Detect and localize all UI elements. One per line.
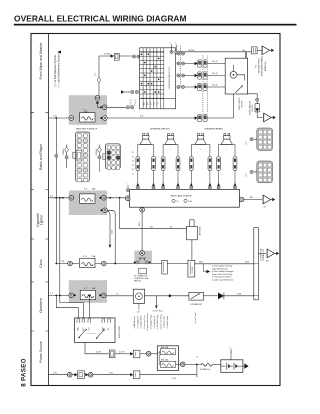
svg-text:to Defogger Relay: to Defogger Relay: [150, 315, 153, 330]
wire cig feed: [49, 197, 70, 199]
junction bus J8: [254, 228, 259, 300]
wire od switch to diode: [204, 295, 218, 297]
connector right of fuse box: [179, 363, 181, 365]
svg-text:to Fuel Pump: to Fuel Pump: [194, 313, 197, 324]
relay block F2 (gray): [69, 95, 107, 125]
fuse F8 clock: [80, 258, 95, 267]
svg-text:to Door Lock Relay: to Door Lock Relay: [159, 314, 162, 329]
radio connector block B: [103, 144, 121, 170]
svg-text:to ECT ECU: to ECT ECU: [153, 310, 164, 313]
svg-text:1 W: 1 W: [172, 378, 176, 380]
svg-text:WIPER AND WASHER SW: WIPER AND WASHER SW: [168, 67, 171, 89]
junction connectors above table: [170, 50, 173, 53]
wire block A lead: [66, 145, 68, 169]
relay block F7 (gray): [69, 280, 107, 303]
harness connector on washer feed: [111, 54, 114, 57]
connector to upper block: [254, 138, 257, 140]
svg-text:6: 6: [170, 43, 171, 45]
connector right of F8: [102, 261, 107, 266]
svg-text:18 L-B: 18 L-B: [212, 61, 218, 63]
diamond connector: [65, 147, 69, 152]
svg-text:W-L: W-L: [95, 72, 97, 75]
dashed harness line right of table: [180, 46, 182, 88]
speaker at 200.6: [198, 133, 200, 135]
connector radio top left: [126, 189, 129, 192]
connector 4-10: [109, 350, 115, 358]
svg-text:15: 15: [132, 165, 134, 167]
svg-text:12: 12: [132, 152, 134, 154]
fuse F6 CIG: [80, 194, 95, 203]
wiper relay stub to top wire: [245, 52, 246, 58]
svg-text:to Theft Deterrent ECU: to Theft Deterrent ECU: [212, 276, 232, 279]
speaker at 226.8: [224, 133, 226, 135]
battery terminal stub: [230, 349, 232, 360]
svg-text:( ) : w/ Full-Harness System: ( ) : w/ Full-Harness System: [53, 55, 57, 87]
sidebar tick: [31, 330, 49, 332]
svg-text:BR: BR: [250, 197, 253, 199]
svg-text:NATION: NATION: [134, 279, 141, 282]
svg-text:F 9: F 9: [176, 201, 179, 203]
svg-text:Radio and Player: Radio and Player: [39, 143, 43, 170]
wire F7 to clock unit: [106, 295, 134, 297]
wire washer feed: [99, 55, 132, 57]
svg-text:Power Point (Tail) Relay: Power Point (Tail) Relay: [212, 273, 232, 276]
connector pair row C: [177, 74, 180, 77]
svg-text:CONNECTOR: CONNECTOR: [263, 248, 265, 261]
battery: [221, 360, 243, 373]
sidebar tick: [31, 189, 49, 191]
wire to battery: [185, 363, 201, 365]
svg-text:IH 2: IH 2: [246, 173, 248, 176]
speaker at 170.6: [168, 133, 170, 135]
svg-text:15A: 15A: [92, 188, 96, 191]
connector left of F8: [68, 261, 73, 266]
left verticals to ignition switch: [56, 296, 78, 320]
svg-text:to w/o Daytime Running: to w/o Daytime Running: [212, 265, 232, 268]
svg-text:G-W: G-W: [237, 294, 241, 296]
svg-text:O/D MAIN SW: O/D MAIN SW: [190, 303, 202, 306]
harness connector AM: [130, 352, 133, 355]
svg-text:0.5 W: 0.5 W: [119, 352, 124, 354]
svg-text:to Headlight RH: to Headlight RH: [136, 315, 139, 328]
svg-text:IH 1: IH 1: [246, 141, 248, 144]
connector on radio left: [126, 196, 131, 201]
wire to switch row2: [124, 91, 130, 93]
antenna feed wire: [120, 228, 187, 230]
left vertical wire 2: [59, 198, 61, 296]
fusible link box: [78, 371, 85, 379]
fuse AM1: [160, 361, 175, 367]
branch arrow to other systems: [207, 270, 211, 273]
connector pair on lower wire: [195, 116, 198, 119]
wire cig branch to clock line: [107, 210, 115, 263]
svg-text:2: 2: [175, 43, 176, 45]
svg-text:0.5 B: 0.5 B: [96, 351, 101, 353]
svg-text:FL MAIN 2.0L: FL MAIN 2.0L: [200, 368, 210, 371]
svg-text:to Headlight LH: to Headlight LH: [153, 315, 156, 328]
svg-text:to Junction Conn: to Junction Conn: [143, 315, 146, 329]
dashed wires below pairs: [203, 91, 207, 114]
connector top of relay block: [95, 96, 100, 101]
svg-text:18 L-B: 18 L-B: [212, 85, 218, 87]
wire ACC bus: [107, 117, 234, 119]
connector lower right of F6: [103, 208, 108, 213]
svg-text:W-B: W-B: [199, 262, 204, 264]
clock unit: [133, 289, 144, 303]
svg-text:INSTRUMENT PANEL: INSTRUMENT PANEL: [261, 55, 264, 76]
junction block 1G-3B: [188, 260, 195, 277]
svg-text:Front Wiper and Washer: Front Wiper and Washer: [39, 42, 43, 80]
svg-text:W: W: [197, 356, 199, 358]
sidebar tick: [31, 238, 49, 240]
left vertical wire W bus: [55, 118, 57, 264]
svg-text:1G-3B: 1G-3B: [192, 267, 194, 273]
svg-text:18 W-L: 18 W-L: [104, 54, 112, 56]
direction arrow on od wire: [169, 294, 172, 297]
right connector block lower: [257, 161, 273, 183]
svg-text:14: 14: [132, 161, 134, 163]
svg-text:22 W: 22 W: [112, 230, 114, 235]
connector left of F7: [69, 293, 74, 298]
svg-text:1 W: 1 W: [109, 372, 113, 374]
svg-text:to Light Control Rheostat: to Light Control Rheostat: [212, 279, 233, 282]
svg-text:OVERALL ELECTRICAL WIRING DIAG: OVERALL ELECTRICAL WIRING DIAGRAM: [14, 14, 187, 24]
connector left of F6: [69, 196, 74, 201]
engine room fuse box: [157, 346, 178, 371]
fuse ALT: [160, 349, 175, 355]
svg-text:to Rear Window Defogger: to Rear Window Defogger: [212, 270, 234, 273]
connector left of fuse: [69, 116, 74, 121]
main power wire 1W: [49, 374, 197, 376]
svg-text:Power Source: Power Source: [39, 341, 43, 362]
diagram frame: [31, 34, 280, 386]
svg-text:18 L-B: 18 L-B: [212, 73, 218, 75]
svg-text:MOTOR: MOTOR: [241, 100, 243, 107]
connector right of relay block upper: [102, 105, 107, 110]
stub down with arrow: [155, 296, 157, 306]
connector pair into wiper switch row2: [131, 90, 134, 93]
cig lighter bottom connectors: [136, 261, 139, 264]
svg-text:13: 13: [132, 156, 134, 158]
connector: [65, 156, 68, 159]
svg-text:ST1: ST1: [88, 327, 90, 330]
svg-text:1: 1: [127, 183, 128, 185]
clock feed wire: [56, 263, 188, 265]
relay block F6 (gray): [69, 191, 107, 216]
connector pair row B: [177, 62, 180, 65]
svg-text:7.5A: 7.5A: [91, 255, 96, 258]
svg-text:17: 17: [132, 174, 134, 176]
fuse F2: [80, 113, 95, 122]
ground point front right: [262, 46, 274, 55]
svg-text:L: L: [145, 149, 146, 151]
connector right of F7: [101, 293, 106, 298]
svg-text:Lighter: Lighter: [40, 214, 44, 225]
ground point radio: [263, 195, 275, 204]
fusible link main: [201, 363, 212, 366]
connector right of F6: [102, 196, 107, 201]
connector pair radio feed: [126, 106, 129, 109]
right connector block upper: [257, 128, 273, 151]
svg-text:SPEAKER (REAR): SPEAKER (REAR): [204, 128, 223, 131]
wire top feed to ground: [178, 51, 251, 53]
svg-text:L: L: [170, 149, 171, 151]
speaker wires: [219, 144, 235, 185]
svg-text:to Starter Relay: to Starter Relay: [166, 316, 169, 329]
connector to lower block: [254, 171, 257, 173]
svg-text:1B W-L: 1B W-L: [188, 50, 196, 52]
wire overdrive feed: [49, 295, 70, 297]
svg-text:SPEAKER (FRONT): SPEAKER (FRONT): [150, 128, 170, 131]
connector right of fuse: [103, 116, 108, 121]
wire radio to ground: [244, 199, 262, 201]
connector under radio: [140, 207, 145, 212]
connector pair row D: [177, 85, 180, 88]
fuse F7: [80, 290, 95, 299]
svg-text:W-B: W-B: [245, 262, 250, 264]
wire block B lead: [98, 145, 100, 173]
speaker wires: [191, 144, 210, 185]
speaker wires: [138, 144, 154, 185]
radio and player unit: [130, 189, 240, 207]
connector pair into wiper switch row1: [132, 55, 135, 58]
svg-text:15A: 15A: [84, 111, 88, 114]
svg-text:Overdrive: Overdrive: [39, 298, 43, 313]
od main switch: [189, 292, 204, 300]
ground battery: [243, 365, 245, 367]
svg-text:8 PASEO: 8 PASEO: [21, 358, 28, 386]
wire vertical to fuse box: [98, 56, 100, 95]
sidebar divider: [48, 34, 50, 386]
svg-text:7 RADIO: 7 RADIO: [62, 148, 65, 155]
cigarette lighter (gray): [134, 251, 152, 263]
sidebar tick: [31, 281, 49, 283]
front wiper motor box: [225, 58, 247, 94]
wire antenna down: [191, 240, 193, 260]
ignition switch box: [75, 318, 116, 343]
svg-text:to Charge Light: to Charge Light: [163, 315, 166, 328]
wire diode to bus: [224, 295, 254, 297]
wire main feed to F2: [49, 117, 70, 119]
svg-text:INT: INT: [150, 102, 152, 105]
svg-text:MOTOR: MOTOR: [252, 104, 254, 111]
wire to AM box: [115, 353, 130, 355]
junction node: [55, 117, 57, 119]
svg-text:to ABS Actuator: to ABS Actuator: [133, 315, 136, 328]
harness connector main: [133, 371, 140, 379]
od indicator diode: [218, 293, 224, 300]
motor antenna: [190, 220, 195, 227]
svg-text:16: 16: [132, 169, 134, 171]
speaker wires: [163, 144, 178, 185]
svg-text:1 W: 1 W: [53, 372, 57, 374]
wiper motor symbol: [230, 71, 237, 78]
wire to fusebox: [140, 353, 147, 355]
svg-text:8 RADIO: 8 RADIO: [95, 148, 98, 155]
svg-text:to Taillight Relay: to Taillight Relay: [140, 315, 143, 328]
front washer motor: [255, 104, 259, 112]
ground point washer: [264, 113, 276, 122]
wire F2 to radio connector: [107, 106, 126, 108]
wire radio to cigarette lighter: [141, 212, 143, 251]
svg-text:OFF: OFF: [147, 102, 149, 105]
wire ignition to fuses: [85, 343, 109, 354]
svg-text:Clock: Clock: [39, 259, 43, 268]
wire motor box down to harness: [233, 94, 235, 118]
junction box right top: [252, 47, 258, 54]
svg-text:AM2 30A: AM2 30A: [161, 346, 169, 349]
svg-text:AM1 40A: AM1 40A: [161, 359, 169, 362]
footnote arrow: [57, 51, 61, 54]
svg-text:ANTENNA: ANTENNA: [199, 226, 202, 235]
svg-text:< > : w/o Full-Harness System: < > : w/o Full-Harness System: [56, 54, 60, 89]
wiper and washer switch table: [140, 48, 176, 109]
svg-text:RADIO AND PLAYER 5P: RADIO AND PLAYER 5P: [76, 127, 98, 130]
wire clock to od switch: [145, 295, 189, 297]
radio connector block A: [73, 132, 90, 182]
wire junction block to bus: [195, 263, 254, 265]
svg-text:10A: 10A: [92, 287, 96, 290]
connector W-L diamond: [97, 77, 101, 82]
svg-text:L: L: [200, 149, 201, 151]
motor park switch: [235, 87, 242, 93]
wire cig branch with end arrow: [107, 211, 110, 245]
wire drop to antenna line: [119, 198, 121, 229]
speaker at 145.7: [143, 133, 145, 135]
svg-text:2: 2: [229, 347, 230, 349]
svg-text:L: L: [226, 149, 227, 151]
sidebar tick: [31, 112, 49, 114]
svg-text:RADIO AND PLAYER: RADIO AND PLAYER: [170, 194, 192, 197]
ignition switch contacts: [79, 330, 86, 337]
wire washer to ground: [257, 112, 262, 118]
svg-text:MIST: MIST: [144, 102, 146, 106]
svg-text:GROUND POINT: GROUND POINT: [259, 57, 261, 73]
wire F6 to radio: [106, 197, 126, 199]
svg-text:to Ignition Main Relay: to Ignition Main Relay: [146, 313, 149, 330]
svg-text:IGNITION SW: IGNITION SW: [119, 326, 121, 338]
illumination resistor box: [139, 268, 147, 274]
svg-text:Light (MT) System: Light (MT) System: [212, 267, 228, 270]
svg-text:IG1: IG1: [108, 328, 110, 331]
ground point bus: [258, 252, 266, 254]
noise filter on clock line: [162, 260, 168, 274]
svg-text:BRACE LH: BRACE LH: [264, 60, 267, 71]
wire motor to washer motor: [247, 94, 257, 104]
svg-text:4 LG: 4 LG: [139, 221, 141, 226]
svg-text:to EFI Main Relay: to EFI Main Relay: [156, 315, 159, 329]
connector pair row A: [177, 52, 180, 55]
title underline: [14, 24, 297, 26]
connector on radio right: [239, 197, 244, 202]
